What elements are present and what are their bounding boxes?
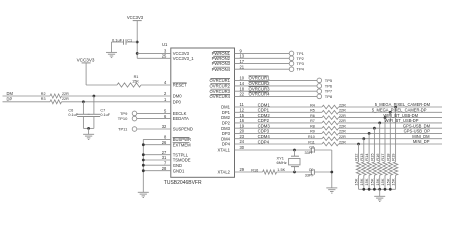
wire OVRCUR1 to TP5 — [235, 79, 318, 81]
svg-text:DP3: DP3 — [222, 131, 231, 136]
svg-text:29: 29 — [240, 167, 245, 172]
test point TP4 — [289, 67, 294, 72]
svg-text:OVRCUR1: OVRCUR1 — [210, 78, 231, 83]
svg-text:22R: 22R — [62, 92, 69, 96]
svg-text:C8: C8 — [309, 145, 314, 149]
svg-text:R6: R6 — [310, 114, 315, 118]
svg-text:EXTMEM: EXTMEM — [173, 142, 191, 147]
wire CDP4 row — [235, 143, 323, 145]
svg-text:VCC3V3: VCC3V3 — [77, 57, 95, 62]
svg-text:25: 25 — [162, 54, 167, 59]
node junction row 5 to pulldown — [373, 127, 376, 130]
node junction bus — [384, 188, 387, 191]
test point TP7 — [317, 89, 322, 94]
node junction bus — [373, 188, 376, 191]
node junction ground stem — [87, 127, 90, 130]
wire GND1 pin 28 — [143, 170, 171, 172]
node junction rail C9 — [330, 171, 333, 174]
node junction row 1 to pulldown — [394, 106, 397, 109]
wire C7 lead — [93, 96, 95, 114]
svg-text:DM0: DM0 — [173, 94, 183, 99]
node junction bus — [389, 188, 392, 191]
wire PWRON1 to TP1 — [235, 52, 290, 54]
svg-text:OVRCUR4: OVRCUR4 — [249, 92, 271, 97]
svg-text:15K: 15K — [364, 178, 369, 185]
svg-text:TP10: TP10 — [118, 116, 128, 121]
svg-text:RESET: RESET — [173, 83, 187, 88]
svg-text:TP2: TP2 — [297, 56, 305, 61]
wire PWRON2 to TP2 — [235, 57, 290, 59]
node junction bus pin27 — [142, 153, 145, 156]
node junction DP to C6 — [82, 100, 85, 103]
node junction row 4 to pulldown — [378, 122, 381, 125]
svg-text:23: 23 — [240, 134, 245, 139]
resistor R7 22R — [322, 121, 339, 125]
wire drop to pulldown resistor — [363, 139, 365, 162]
node junction DM to C7 — [93, 95, 96, 98]
wire R9 to connector — [339, 132, 443, 134]
wire VCC3V3 rail down — [136, 21, 138, 59]
svg-text:BUSPWR: BUSPWR — [173, 137, 191, 142]
svg-text:WIFI_BT_USB-DM: WIFI_BT_USB-DM — [383, 113, 418, 118]
svg-text:5_MEGA_PIXEL_CAMER-DP: 5_MEGA_PIXEL_CAMER-DP — [372, 108, 427, 113]
svg-text:R8: R8 — [310, 125, 315, 129]
wire PWRON3 to TP3 — [235, 63, 290, 65]
wire XTAL1 pin 30 — [235, 149, 312, 151]
node junction bus pin28 — [142, 169, 145, 172]
svg-text:TP6: TP6 — [325, 83, 333, 88]
svg-text:C7: C7 — [100, 108, 105, 112]
svg-text:R12: R12 — [354, 153, 359, 161]
svg-text:R7: R7 — [310, 119, 315, 123]
test point TP8 — [317, 94, 322, 99]
wire drop to pulldown resistor — [373, 128, 375, 162]
svg-text:DP4: DP4 — [222, 142, 231, 147]
svg-text:33PF: 33PF — [305, 151, 315, 155]
svg-text:0.1uF: 0.1uF — [68, 113, 78, 117]
wire CDP1 row — [235, 111, 323, 113]
test point TP3 — [289, 61, 294, 66]
node junction bus — [362, 188, 365, 191]
svg-text:DM2: DM2 — [221, 115, 231, 120]
svg-text:TUSB2046BVFR: TUSB2046BVFR — [164, 180, 202, 186]
wire C6 lead — [82, 102, 84, 115]
svg-text:R16: R16 — [375, 153, 380, 161]
wire R3 to DP0 pin 1 — [62, 101, 171, 103]
resistor R5 22R — [322, 111, 339, 115]
wire CDM3 row — [235, 127, 323, 129]
svg-text:TP3: TP3 — [297, 61, 305, 66]
svg-text:21: 21 — [240, 64, 245, 69]
wire R8 to connector — [339, 127, 443, 129]
node junction XTAL2 crystal — [293, 171, 296, 174]
node junction XTAL1 crystal — [293, 149, 296, 152]
svg-text:15K: 15K — [132, 80, 139, 84]
svg-text:30: 30 — [240, 145, 245, 150]
svg-text:OVRCUR4: OVRCUR4 — [210, 94, 231, 99]
svg-text:22R: 22R — [62, 97, 69, 101]
node junction row 2 to pulldown — [389, 111, 392, 114]
node junction row 3 to pulldown — [384, 116, 387, 119]
svg-text:R17: R17 — [380, 153, 385, 161]
capacitor C9 33PF — [310, 169, 312, 174]
wire array ground stem — [379, 189, 381, 196]
wire OVRCUR3 to TP7 — [235, 90, 318, 92]
ground under bus — [138, 191, 149, 193]
svg-text:TP4: TP4 — [297, 67, 305, 72]
svg-text:R3: R3 — [41, 97, 46, 101]
resistor R8 22R — [322, 126, 339, 130]
svg-text:R9: R9 — [310, 130, 315, 134]
svg-text:OVRCUR2: OVRCUR2 — [210, 84, 231, 89]
wire C1 branch — [126, 41, 137, 43]
wire BUSPWR pin 8 — [143, 138, 171, 140]
svg-text:R15: R15 — [370, 153, 375, 161]
svg-text:CDP2: CDP2 — [258, 118, 270, 123]
wire R1 to RESET pin 4 — [141, 84, 171, 86]
wire CDM2 row — [235, 117, 323, 119]
svg-text:14: 14 — [240, 81, 245, 86]
wire R5 to connector — [339, 111, 443, 113]
svg-text:CDP1: CDP1 — [258, 108, 270, 113]
wire GND pin 7 — [143, 164, 171, 166]
wire EXTMEM pin 26 — [143, 144, 171, 146]
node junction row 6 to pulldown — [368, 132, 371, 135]
wire C1 to ground — [112, 41, 124, 43]
svg-text:6MHz: 6MHz — [277, 160, 287, 165]
ground under array — [374, 195, 385, 197]
svg-text:15K: 15K — [359, 178, 364, 185]
svg-text:16: 16 — [240, 118, 245, 123]
resistor R10 22R — [322, 137, 339, 141]
wire ground bus vertical — [142, 139, 144, 192]
svg-text:DP0: DP0 — [173, 99, 182, 104]
svg-text:DM1: DM1 — [221, 105, 231, 110]
svg-text:VCC3V3: VCC3V3 — [127, 15, 144, 20]
wire XTAL2 pin 29 — [235, 171, 263, 173]
wire TSMODE pin 31 — [143, 159, 171, 161]
test point TP5 — [317, 78, 322, 83]
svg-text:OVRCUR2: OVRCUR2 — [249, 81, 271, 86]
svg-text:33PF: 33PF — [305, 173, 315, 177]
resistor R6 22R — [322, 116, 339, 120]
svg-text:CDP4: CDP4 — [258, 139, 270, 144]
resistor R4 22R — [322, 105, 339, 109]
node junction row 8 to pulldown — [357, 143, 360, 146]
svg-text:R18: R18 — [385, 153, 390, 161]
wire R11 to connector — [339, 143, 443, 145]
node junction bus — [368, 188, 371, 191]
ground under C1 — [106, 51, 117, 53]
svg-text:15K: 15K — [370, 178, 375, 185]
svg-text:TP11: TP11 — [118, 127, 128, 132]
wire CDM1 row — [235, 106, 323, 108]
svg-text:R11: R11 — [308, 140, 315, 144]
wire R7 to connector — [339, 122, 443, 124]
wire CDM4 row — [235, 138, 323, 140]
svg-text:12: 12 — [240, 108, 245, 113]
svg-text:C6: C6 — [68, 108, 73, 112]
node junction pin3 branch — [136, 52, 139, 55]
svg-text:PWRON4: PWRON4 — [212, 67, 231, 72]
wire TP9 to EECLK pin 5 — [137, 112, 171, 114]
svg-text:R16: R16 — [251, 168, 258, 172]
capacitor C1 0.1uF — [123, 39, 125, 44]
capacitor C7 0.1uF — [88, 113, 101, 115]
svg-text:VCC3V3_1: VCC3V3_1 — [173, 56, 195, 61]
wire C8 to ground rail — [314, 149, 331, 151]
svg-text:DP2: DP2 — [222, 121, 231, 126]
wire R10 to connector — [339, 138, 443, 140]
ground under C6 C7 — [83, 133, 94, 135]
svg-text:27: 27 — [162, 150, 167, 155]
resistor R11 22R — [322, 142, 339, 146]
svg-text:C9: C9 — [309, 168, 314, 172]
svg-text:11: 11 — [240, 102, 245, 107]
svg-text:15K: 15K — [375, 178, 380, 185]
wire ground rail — [331, 150, 333, 188]
svg-text:R5: R5 — [310, 109, 315, 113]
svg-text:R19: R19 — [391, 153, 396, 161]
svg-text:15K: 15K — [380, 178, 385, 185]
svg-text:MINI_DP: MINI_DP — [413, 139, 430, 144]
svg-text:DP: DP — [7, 96, 13, 101]
wire OVRCUR4 to TP8 — [235, 95, 318, 97]
wire drop to pulldown resistor — [389, 112, 391, 162]
svg-text:GND: GND — [173, 163, 182, 168]
svg-text:WIFI_BT_USB-DP: WIFI_BT_USB-DP — [385, 118, 419, 123]
svg-text:CDM4: CDM4 — [258, 134, 271, 139]
svg-text:SUSPEND: SUSPEND — [173, 127, 193, 132]
node junction bus pin7 — [142, 164, 145, 167]
wire drop to pulldown resistor — [358, 144, 360, 162]
wire TP11 to SUSPEND pin 32 — [137, 128, 171, 130]
svg-text:TSTPLL: TSTPLL — [173, 152, 189, 157]
node junction bus — [378, 188, 381, 191]
svg-text:GND1: GND1 — [173, 168, 185, 173]
svg-text:R1: R1 — [134, 75, 139, 79]
svg-text:20: 20 — [240, 129, 245, 134]
wire CDP2 row — [235, 122, 323, 124]
svg-text:13: 13 — [240, 54, 245, 59]
svg-text:U1: U1 — [162, 42, 168, 47]
svg-text:OVRCUR1: OVRCUR1 — [249, 76, 271, 81]
svg-text:TP5: TP5 — [325, 78, 333, 83]
svg-text:R10: R10 — [308, 135, 315, 139]
svg-text:XTAL2: XTAL2 — [218, 170, 231, 175]
wire DP entry — [3, 101, 51, 103]
svg-text:28: 28 — [162, 166, 167, 171]
svg-text:GPS-USB_DP: GPS-USB_DP — [404, 129, 431, 134]
test point TP6 — [317, 84, 322, 89]
svg-text:CDM1: CDM1 — [258, 102, 271, 107]
wire C6 C7 to ground bus — [82, 117, 84, 129]
wire VCC stem down — [85, 63, 87, 85]
svg-text:24: 24 — [240, 139, 245, 144]
svg-text:15K: 15K — [354, 178, 359, 185]
capacitor C8 33PF — [310, 147, 312, 152]
resistor R9 22R — [322, 132, 339, 136]
wire R4 to connector — [339, 106, 443, 108]
node junction bus pin26 — [142, 143, 145, 146]
wire CDP3 row — [235, 132, 323, 134]
wire TP10 to EEDATA pin 6 — [137, 118, 171, 120]
wire TSTPLL pin 27 — [143, 154, 171, 156]
svg-text:R2: R2 — [41, 92, 46, 96]
svg-text:EEDATA: EEDATA — [173, 116, 189, 121]
svg-text:PWRON3: PWRON3 — [212, 61, 231, 66]
svg-text:26: 26 — [162, 140, 167, 145]
test point TP2 — [289, 56, 294, 61]
svg-text:5_MEGA_PIXEL_CAMER-DM: 5_MEGA_PIXEL_CAMER-DM — [375, 102, 431, 107]
svg-text:C1: C1 — [127, 38, 132, 42]
wire to pin 25 — [137, 57, 171, 59]
svg-text:17: 17 — [240, 59, 245, 64]
resistor R1 15K — [117, 83, 141, 87]
svg-text:10: 10 — [240, 76, 245, 81]
svg-text:R4: R4 — [310, 103, 315, 107]
capacitor C6 0.1uF — [77, 113, 90, 115]
wire drop to pulldown resistor — [379, 123, 381, 162]
ground under rail — [326, 187, 337, 189]
svg-text:TP8: TP8 — [325, 94, 333, 99]
wire to R1 — [86, 84, 117, 86]
wire C9 to ground rail — [314, 171, 331, 173]
wire drop to pulldown resistor — [384, 118, 386, 162]
svg-text:15: 15 — [240, 113, 245, 118]
node junction bus pin31 — [142, 159, 145, 162]
node junction C1 branch — [136, 41, 139, 44]
svg-text:DM: DM — [7, 91, 14, 96]
svg-text:DP1: DP1 — [222, 110, 231, 115]
op-amp U1 hub IC TUSB2046B box — [171, 48, 235, 177]
test point TP1 — [289, 51, 294, 56]
wire OVRCUR2 to TP6 — [235, 85, 318, 87]
svg-text:PWRON2: PWRON2 — [212, 56, 231, 61]
wire DM entry — [3, 95, 51, 97]
wire R6 to connector — [339, 117, 443, 119]
wire drop to pulldown resistor — [368, 133, 370, 162]
svg-text:CDP3: CDP3 — [258, 129, 270, 134]
svg-text:R13: R13 — [359, 153, 364, 161]
wire R2 to DM0 pin 2 — [62, 95, 171, 97]
svg-text:R14: R14 — [364, 153, 369, 161]
svg-text:MINI_DM: MINI_DM — [412, 134, 430, 139]
svg-text:XTAL1: XTAL1 — [218, 148, 231, 153]
svg-text:15K: 15K — [391, 178, 396, 185]
svg-text:0.1uF: 0.1uF — [100, 113, 110, 117]
wire PWRON4 to TP4 — [235, 68, 290, 70]
svg-text:DM4: DM4 — [221, 136, 231, 141]
node junction row 7 to pulldown — [362, 137, 365, 140]
svg-text:1.5K: 1.5K — [277, 168, 285, 172]
svg-text:CDM2: CDM2 — [258, 113, 271, 118]
wire array bottom bus — [359, 188, 396, 190]
wire to pin 3 — [137, 52, 171, 54]
resistor R2 22R — [50, 94, 61, 98]
svg-text:15K: 15K — [385, 178, 390, 185]
resistor R3 22R — [50, 100, 61, 104]
svg-text:32: 32 — [162, 124, 167, 129]
svg-text:22: 22 — [240, 92, 245, 97]
wire drop to pulldown resistor — [395, 107, 397, 162]
